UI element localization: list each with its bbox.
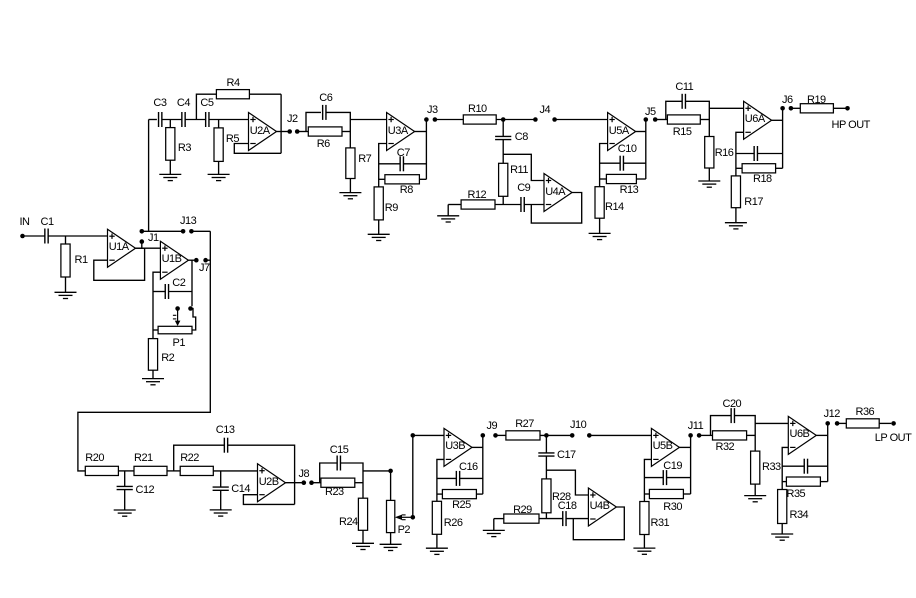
jumper J6 pin 2	[789, 106, 794, 111]
ground under R3	[159, 174, 181, 180]
wire C4 to C5	[185, 119, 206, 121]
jumper J2 pin 2	[295, 129, 300, 134]
resistor R10	[463, 115, 496, 124]
jumper J11 pin 1	[688, 433, 693, 438]
capacitor above R18	[754, 146, 757, 161]
jumper J12 pin 2	[835, 421, 840, 426]
label U6B	[790, 429, 810, 440]
wire R27 to J10	[540, 434, 572, 436]
capacitor C4	[182, 112, 185, 127]
label LP OUT	[875, 433, 912, 444]
jumper J5 pin 2	[653, 117, 658, 122]
label J2	[287, 114, 298, 125]
wire R28 to R29 row	[545, 513, 547, 519]
capacitor C8	[495, 136, 511, 139]
resistor R9	[374, 187, 383, 220]
label U1A	[109, 242, 129, 253]
label R23	[325, 487, 344, 498]
resistor R11	[499, 163, 508, 196]
wire C10 row right	[624, 162, 646, 164]
wire U6B feedback cap row right	[808, 465, 828, 467]
capacitor C11	[682, 94, 685, 109]
label R26	[444, 518, 463, 529]
label J10	[570, 420, 586, 431]
node HP OUT terminal	[845, 106, 850, 111]
label C17	[557, 450, 576, 461]
wire U1B output to P1 branch	[191, 260, 193, 306]
label P2	[398, 525, 410, 536]
label C16	[459, 462, 478, 473]
wire C19 row left	[644, 477, 663, 479]
label U6A	[745, 114, 765, 125]
resistor R28	[542, 479, 551, 513]
wire C13 to output vertical	[228, 445, 295, 504]
label R7	[358, 154, 371, 165]
label J5	[645, 107, 656, 118]
ground under R16	[698, 181, 720, 187]
label R5	[226, 134, 239, 145]
wire C8 bottom lead	[502, 140, 504, 163]
label C7	[397, 148, 410, 159]
resistor R30	[649, 489, 683, 498]
op-amp U6B	[788, 416, 816, 454]
resistor R26	[432, 501, 441, 534]
wire C7 row left	[379, 163, 401, 165]
capacitor C7	[400, 156, 403, 171]
wire U5A - input stub	[600, 144, 608, 187]
jumper J7 pin 2	[203, 258, 208, 263]
ground under R31	[633, 548, 655, 554]
jumper J10 pin 1	[570, 433, 575, 438]
op-amp U3A	[387, 113, 415, 151]
op-amp U5A	[608, 113, 636, 151]
wire U5B output vertical	[690, 435, 692, 494]
resistor R36	[846, 419, 879, 428]
wire U3B output vertical	[482, 435, 484, 494]
label U3A	[388, 126, 408, 137]
wire U1A feedback	[94, 248, 145, 280]
op-amp U2B	[258, 464, 286, 502]
label J3	[427, 105, 438, 116]
wire U2B feedback bottom	[243, 495, 294, 505]
wire C7 row right	[404, 163, 427, 165]
label R21	[134, 453, 153, 464]
wire U2A output to J2	[277, 131, 289, 133]
resistor R25	[442, 490, 476, 499]
label U1B	[162, 254, 182, 265]
wire P2 bottom lead	[390, 533, 392, 545]
wire R9 to ground	[378, 220, 380, 234]
resistor R12	[461, 200, 495, 209]
wire U2B output	[286, 482, 302, 484]
label R34	[790, 510, 809, 521]
wire node to P2 dot	[363, 470, 389, 472]
node P2 wiper dot	[411, 515, 416, 520]
wire R33 to ground	[754, 484, 756, 496]
capacitor C6	[323, 105, 326, 120]
label J11	[688, 421, 703, 432]
jumper J4 pin 1	[533, 117, 538, 122]
label U2A	[250, 126, 270, 137]
label J6	[782, 95, 793, 106]
wire R13 row right	[636, 178, 645, 180]
wire R6 to node	[342, 131, 350, 133]
label R6	[317, 139, 330, 150]
wire R8 row left	[379, 178, 385, 180]
op-amp U6A	[744, 101, 772, 139]
capacitor C9	[521, 197, 524, 212]
label J7	[199, 263, 210, 274]
wire node to U6B + input	[755, 422, 788, 424]
label R29	[513, 505, 532, 516]
label C20	[723, 399, 742, 410]
wire J4 to U5A + input	[555, 119, 608, 121]
resistor R17	[731, 176, 740, 208]
capacitor C10	[620, 156, 623, 171]
ground under R29	[483, 530, 505, 536]
wire C14 top lead	[220, 471, 222, 487]
wire J10 to U5B + input	[589, 434, 651, 436]
resistor R29	[504, 514, 539, 523]
wire J1 stub up	[141, 244, 143, 249]
resistor R3	[166, 128, 175, 161]
capacitor C20	[731, 408, 734, 423]
ground under R14	[589, 233, 611, 239]
wire IN to C1	[25, 235, 45, 237]
wire J13 to LP branch corner	[191, 230, 210, 232]
wire R16 to ground	[708, 168, 710, 181]
wire C12 top lead	[124, 471, 126, 487]
label R15	[673, 127, 692, 138]
wire U3B output	[472, 446, 483, 448]
resistor R27	[506, 431, 540, 440]
wire C18 to U4B - input	[566, 518, 588, 520]
capacitor C2	[165, 284, 168, 299]
wire C11 branch	[666, 101, 682, 119]
wire R20 to R21	[118, 470, 134, 472]
wire C6 to node	[326, 112, 350, 147]
capacitor C5	[206, 112, 209, 127]
jumper J5 pin 1	[644, 117, 649, 122]
wire C15 branch	[320, 463, 337, 483]
jumper J9 pin 2	[493, 433, 498, 438]
wire U4A feedback	[531, 193, 581, 224]
label R27	[515, 419, 534, 430]
wire R19 to HP OUT	[833, 107, 845, 109]
wire P1 right connection	[191, 309, 196, 331]
jumper J8 pin 1	[302, 480, 307, 485]
wire P1 left lead	[153, 329, 158, 331]
wire vertical from C3 row to J13 row	[148, 120, 150, 232]
wire R13 row left	[600, 178, 607, 180]
potentiometer P1 wiper arrow	[173, 311, 181, 327]
label R4	[227, 78, 240, 89]
resistor R32	[713, 431, 747, 440]
wire J7 to vertical	[206, 259, 211, 261]
wire C16 row right	[460, 477, 483, 479]
wire U5B output	[679, 446, 690, 448]
resistor R16	[705, 137, 714, 169]
wire R4 to output vertical	[249, 93, 281, 95]
wire U3B - input stub	[437, 459, 444, 501]
wire R18 row right	[776, 167, 783, 169]
op-amp U5B	[651, 428, 679, 466]
resistor R35	[786, 477, 820, 486]
capacitor C19	[663, 470, 666, 485]
capacitor C13	[224, 438, 227, 453]
wire R17 to ground	[735, 208, 737, 223]
wire R3 to ground	[169, 160, 171, 174]
wire U6B output	[816, 434, 827, 436]
resistor R13	[606, 174, 636, 183]
wire R35 row right	[820, 481, 827, 483]
wire U4B feedback	[573, 507, 624, 540]
ground under R7	[339, 193, 361, 199]
wire R8 row right	[419, 178, 426, 180]
resistor R34	[778, 490, 787, 524]
label C14	[231, 484, 250, 495]
wire C2 row left	[153, 291, 165, 293]
label R18	[753, 174, 772, 185]
wire R34 to ground	[781, 524, 783, 535]
wire C17 top lead	[545, 435, 547, 452]
node P1 wiper dot	[175, 306, 180, 311]
label U3B	[445, 441, 465, 452]
jumper J7 pin 1	[194, 258, 199, 263]
wire R1 lead	[65, 236, 67, 244]
wire C6 branch	[306, 112, 321, 131]
wire P2 top lead	[390, 471, 392, 501]
ground under R1	[55, 292, 77, 298]
capacitor C15	[337, 456, 340, 471]
label R10	[468, 104, 487, 115]
capacitor C14	[213, 487, 229, 490]
wire R11 to R12 row	[502, 196, 504, 204]
label R33	[762, 462, 781, 473]
jumper J2 pin 1	[287, 129, 292, 134]
capacitor C16	[456, 471, 459, 486]
ground under P2	[380, 544, 402, 550]
wire R31 to ground	[643, 535, 645, 549]
potentiometer P2	[387, 500, 395, 532]
ground under R26	[426, 548, 448, 554]
jumper J4 pin 2	[552, 117, 557, 122]
label J9	[487, 421, 498, 432]
label R3	[178, 143, 191, 154]
wire C11 to node	[686, 101, 710, 136]
label R14	[605, 202, 624, 213]
wire J9 to R27	[496, 434, 506, 436]
resistor R19	[800, 104, 833, 113]
wire U5A output vertical	[645, 120, 647, 180]
wire R15 to node	[700, 119, 709, 121]
label R30	[663, 502, 682, 513]
label R25	[452, 500, 471, 511]
wire C2 row right	[169, 291, 192, 293]
wire J13 row	[142, 230, 181, 232]
wire U3A output vertical	[425, 120, 427, 180]
resistor R31	[640, 502, 649, 535]
wire C19 row right	[667, 477, 691, 479]
ground under R17	[725, 223, 747, 229]
jumper J3 pin 1	[424, 117, 429, 122]
op-amp U1A	[108, 229, 136, 267]
jumper J12 pin 1	[825, 421, 830, 426]
label R20	[85, 453, 104, 464]
resistor R24	[358, 498, 367, 530]
jumper J11 pin 2	[697, 433, 702, 438]
wire R25 row left	[437, 493, 443, 495]
label C5	[200, 98, 213, 109]
wire R36 to LP OUT	[879, 422, 891, 424]
wire R14 to ground	[599, 218, 601, 233]
resistor R5	[214, 128, 223, 161]
label R17	[744, 197, 763, 208]
label P1	[173, 338, 185, 349]
label R9	[385, 203, 398, 214]
label C3	[153, 98, 166, 109]
resistor R4	[216, 90, 249, 99]
wire C20 to node	[735, 416, 756, 452]
resistor R20	[85, 466, 118, 475]
wire R25 row right	[476, 493, 482, 495]
capacitor C18	[563, 511, 566, 526]
label R19	[807, 95, 826, 106]
wire R12 to C9	[495, 204, 521, 206]
jumper J1 pin 1	[140, 239, 145, 244]
capacitor C1	[45, 229, 48, 244]
label R35	[787, 489, 806, 500]
label U2B	[259, 477, 279, 488]
wire U6B - input stub	[782, 447, 788, 489]
node LP OUT terminal	[891, 421, 896, 426]
wire R7 to ground	[349, 179, 351, 193]
jumper J6 pin 1	[780, 106, 785, 111]
label U5A	[609, 126, 629, 137]
op-amp U3B	[444, 428, 472, 466]
jumper J13 pin 2	[189, 229, 194, 234]
wire C12 bottom lead	[124, 490, 126, 510]
wire U2A feedback bottom	[234, 144, 281, 154]
resistor R14	[595, 187, 604, 219]
label J12	[824, 409, 840, 420]
label R2	[161, 353, 174, 364]
ground under R12	[437, 216, 459, 222]
wire C10 row left	[600, 162, 621, 164]
wire C20 branch	[711, 416, 732, 436]
label C10	[618, 144, 637, 155]
resistor R1	[61, 244, 70, 277]
label C15	[330, 445, 349, 456]
wire C3 to C4	[162, 119, 182, 121]
wire J3 to R10	[435, 119, 463, 121]
jumper J8 pin 2	[309, 480, 314, 485]
wire J5 to R15	[655, 119, 667, 121]
wire U6A feedback cap row left	[736, 153, 754, 155]
capacitor above R35	[804, 459, 807, 474]
potentiometer P2 wiper arrow	[395, 515, 411, 520]
wire R2 to ground	[152, 370, 154, 378]
resistor R15	[667, 115, 700, 124]
wire R29 left to ground	[493, 519, 495, 531]
label R8	[400, 185, 413, 196]
resistor R21	[134, 466, 167, 475]
wire P2 wiper to U3B riser	[412, 435, 414, 517]
wire node to U4A + input	[503, 154, 544, 180]
wire node to U3A + input	[350, 119, 386, 121]
resistor R6	[308, 127, 342, 136]
label R22	[180, 453, 199, 464]
wire R22 to U2B + input	[213, 470, 257, 472]
label C18	[558, 501, 577, 512]
wire U5A output	[636, 131, 646, 133]
wire U1B output	[188, 259, 194, 261]
op-amp U2A	[249, 113, 277, 151]
node U3B + input junction	[411, 433, 416, 438]
wire U6A output vertical	[782, 108, 784, 168]
ground under R33	[744, 496, 766, 502]
resistor R7	[346, 148, 355, 179]
label R11	[510, 165, 528, 176]
label IN	[20, 217, 30, 228]
ground under R24	[352, 543, 374, 549]
jumper J9 pin 1	[481, 433, 486, 438]
jumper J1 pin 2	[140, 229, 145, 234]
label C9	[517, 183, 530, 194]
jumper J13 pin 1	[181, 229, 186, 234]
potentiometer P1	[158, 326, 192, 334]
wire R29 row left	[494, 518, 504, 520]
label R12	[468, 190, 487, 201]
label J4	[540, 105, 551, 116]
wire C15 to node	[341, 463, 364, 498]
wire node to U4B + input	[546, 470, 588, 495]
label C12	[136, 485, 155, 496]
capacitor C12	[117, 486, 133, 489]
label R24	[339, 517, 358, 528]
wire U3A output	[414, 131, 426, 133]
label C6	[319, 93, 332, 104]
label R16	[715, 148, 734, 159]
label C19	[663, 461, 682, 472]
wire C3 row segment 1	[149, 119, 157, 121]
wire node to U6A + input	[709, 107, 743, 109]
node P1 right dot	[188, 306, 193, 311]
wire U5B - input stub	[644, 459, 651, 501]
wire J8 to R23	[312, 482, 321, 484]
resistor R22	[180, 466, 213, 475]
resistor R2	[148, 339, 157, 371]
resistor R8	[385, 175, 420, 184]
wire C13 branch up	[174, 445, 225, 471]
label R1	[75, 255, 88, 266]
label R28	[552, 492, 571, 503]
label C11	[675, 82, 693, 93]
label C8	[515, 132, 528, 143]
wire R5 lead	[218, 120, 220, 128]
label J8	[299, 469, 310, 480]
label J1	[148, 233, 159, 244]
label R13	[620, 185, 639, 196]
wire U2A output vertical	[280, 94, 282, 153]
label U4A	[545, 187, 565, 198]
wire J12 to R36	[837, 422, 846, 424]
ground under C12	[114, 510, 136, 516]
wire U1B - input stub	[153, 272, 160, 338]
label C13	[216, 425, 235, 436]
wire riser to U3B + input	[413, 434, 444, 436]
node IN terminal	[20, 234, 25, 239]
